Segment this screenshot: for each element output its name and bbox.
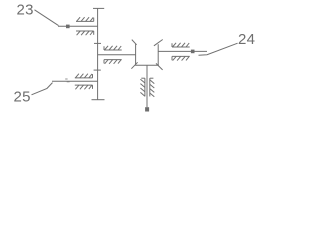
leader line 25 (32, 83, 53, 95)
bearing 23 (76, 17, 94, 35)
svg-text:24: 24 (238, 31, 255, 48)
vertical output shaft (146, 65, 148, 107)
journal dot on shaft 23 (66, 25, 70, 29)
intermediate shaft (98, 54, 136, 56)
intermediate bearing (104, 46, 122, 64)
journal marker on shaft 25 (65, 79, 69, 82)
crown bevel gear (135, 64, 159, 66)
left bevel cone (top-left) (132, 40, 137, 45)
leader line 24 (199, 43, 238, 55)
bearing 25 (75, 74, 93, 90)
mesh cone (bottom-left) (131, 62, 137, 68)
bottom bearing (140, 78, 154, 97)
svg-text:23: 23 (17, 2, 34, 19)
journal dot on shaft 24 (191, 50, 195, 54)
leader line 23 (35, 10, 59, 26)
svg-text:25: 25 (14, 89, 31, 106)
gear column (spur gears on vertical axis) (92, 8, 105, 99)
output shaft right (158, 50, 207, 52)
bearing 24 (172, 43, 190, 61)
shaft end dot (145, 107, 149, 111)
left bevel gear (135, 44, 137, 66)
right bevel gear (157, 44, 159, 65)
shaft 25 (52, 80, 98, 82)
shaft 23 (58, 25, 98, 27)
mesh cone (bottom-right) (156, 63, 163, 70)
right bevel cone (top-right) (154, 40, 163, 46)
